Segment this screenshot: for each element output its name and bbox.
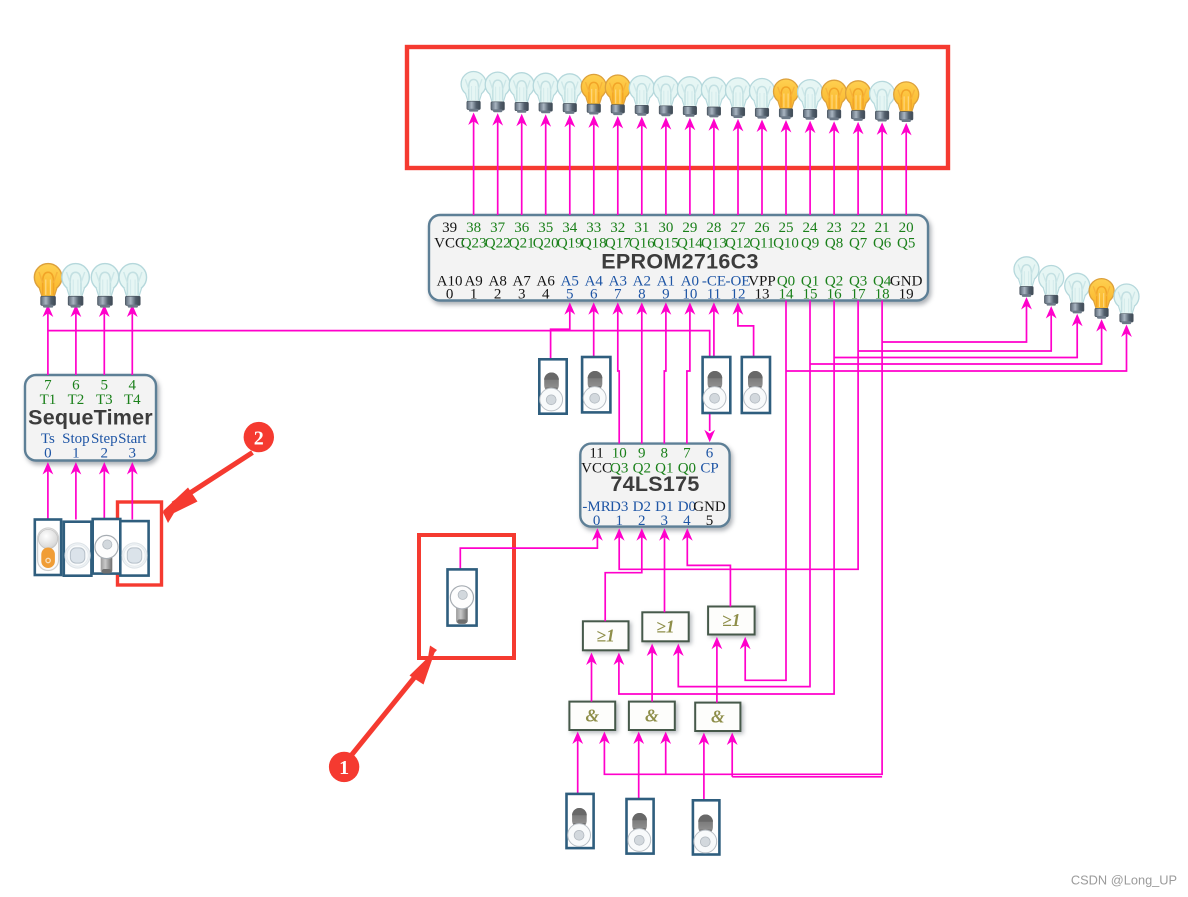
annotation circle 2 xyxy=(244,422,274,452)
wire EPROM pin 30 to lamp L9 xyxy=(661,117,672,215)
wire EPROM -OE pin 12 to button S8 xyxy=(733,302,754,374)
wire clock trunk from T1 node to button S7 xyxy=(48,331,710,382)
lamp LT1 timer T1 on xyxy=(34,264,62,308)
svg-text:10: 10 xyxy=(682,286,697,302)
svg-text:SequeTimer: SequeTimer xyxy=(28,405,153,429)
lamp L8 output Q16 off xyxy=(629,76,654,116)
svg-text:1: 1 xyxy=(339,757,349,779)
lamp LT2 timer T2 off xyxy=(62,264,90,308)
svg-text:22: 22 xyxy=(851,220,866,236)
wire button S9 to 74LS175 -MR pin 0 xyxy=(460,528,603,570)
lamp L7 output Q17 on xyxy=(605,75,630,115)
svg-text:CP: CP xyxy=(700,461,718,477)
svg-text:EPROM2716C3: EPROM2716C3 xyxy=(601,249,758,273)
wire button S6 to EPROM A4 pin 6 xyxy=(588,302,599,380)
lamp L13 output Q11 off xyxy=(750,79,775,119)
or-gate G1 xyxy=(583,621,629,650)
svg-text:19: 19 xyxy=(899,286,914,302)
svg-text:39: 39 xyxy=(442,220,457,236)
svg-text:9: 9 xyxy=(638,445,646,461)
svg-text:13: 13 xyxy=(754,286,769,302)
svg-text:Q9: Q9 xyxy=(801,235,819,251)
svg-text:32: 32 xyxy=(610,220,625,236)
svg-text:16: 16 xyxy=(827,286,843,302)
svg-text:6: 6 xyxy=(706,445,714,461)
and-gate G5 xyxy=(629,702,675,730)
wire button S7 node down to 74LS175 CP pin 6 xyxy=(704,402,715,442)
svg-text:≥1: ≥1 xyxy=(722,610,740,630)
switch S2 button Stop xyxy=(64,522,92,576)
svg-text:CSDN @Long_UP: CSDN @Long_UP xyxy=(1071,873,1177,888)
svg-text:11: 11 xyxy=(707,286,721,302)
lamp L14 output Q10 on xyxy=(774,79,799,119)
wire or-gate G1 output to 74LS175 D2 xyxy=(605,528,647,621)
wire and-gate G4 output to or-gate G1 xyxy=(586,653,597,702)
svg-text:3: 3 xyxy=(661,513,669,529)
lamp L12 output Q12 off xyxy=(726,78,751,118)
svg-text:6: 6 xyxy=(72,377,80,393)
annotation arrow 1 xyxy=(350,646,438,758)
wire EPROM Q1 pin 15 feedback to or-gate G2 and lamp R4 xyxy=(673,301,1107,687)
wire EPROM pin 23 to lamp L16 xyxy=(829,121,840,215)
register U3 74LS175 xyxy=(580,444,729,529)
svg-text:30: 30 xyxy=(658,220,673,236)
lamp LT4 timer T4 off xyxy=(119,264,147,308)
svg-text:Start: Start xyxy=(118,431,147,447)
button S8 output enable xyxy=(742,357,770,413)
svg-text:0: 0 xyxy=(44,446,52,462)
svg-text:Q8: Q8 xyxy=(825,235,843,251)
svg-text:Step: Step xyxy=(91,431,118,447)
button S11 and-gate G5 input xyxy=(627,799,654,854)
wire EPROM pin 37 to lamp L2 xyxy=(492,113,503,215)
lamp L2 output Q22 off xyxy=(485,72,510,112)
svg-text:2: 2 xyxy=(638,513,646,529)
and-gate G4 xyxy=(569,702,615,730)
wire switch S3 to SequeTimer pin 2 xyxy=(99,462,110,520)
wire EPROM pin 26 to lamp L13 xyxy=(757,120,768,216)
svg-text:Q20: Q20 xyxy=(533,235,559,251)
svg-text:11: 11 xyxy=(589,445,603,461)
svg-text:≥1: ≥1 xyxy=(597,625,615,645)
lamp L18 output Q6 off xyxy=(870,81,895,121)
svg-text:2: 2 xyxy=(101,446,109,462)
svg-text:20: 20 xyxy=(899,220,914,236)
wire T4 output to lamp LT4 xyxy=(127,305,138,376)
wire button S11 to and-gate G5 xyxy=(633,732,644,801)
or-gate G2 xyxy=(642,612,688,641)
svg-text:37: 37 xyxy=(490,220,506,236)
lamp L3 output Q21 off xyxy=(509,73,534,113)
wire 74LS175 Q1 to EPROM A1 pin 9 xyxy=(661,302,672,443)
svg-text:31: 31 xyxy=(634,220,649,236)
wire EPROM pin 25 to lamp L14 xyxy=(781,120,792,215)
wire EPROM Q2 pin 16 feedback to or-gate G1 and lamp R3 xyxy=(614,301,1083,695)
wire EPROM pin 33 to lamp L6 xyxy=(588,115,599,215)
svg-text:Q7: Q7 xyxy=(849,235,868,251)
lamp L11 output Q13 off xyxy=(701,77,726,117)
lamp R3 off xyxy=(1065,273,1090,313)
lamp L19 output Q5 on xyxy=(894,82,919,122)
annotation arrow 2 xyxy=(163,453,253,524)
svg-text:&: & xyxy=(585,705,599,725)
wire or-gate G2 output to 74LS175 D1 xyxy=(659,528,670,612)
svg-text:4: 4 xyxy=(129,377,137,393)
svg-text:12: 12 xyxy=(730,286,745,302)
switch S3 key button Step xyxy=(93,519,121,574)
svg-text:17: 17 xyxy=(851,286,867,302)
button S12 and-gate G6 input xyxy=(693,800,720,854)
svg-text:2: 2 xyxy=(254,427,264,449)
svg-text:4: 4 xyxy=(683,513,691,529)
svg-text:5: 5 xyxy=(706,513,714,529)
wire EPROM pin 28 to lamp L11 xyxy=(709,118,720,215)
lamp L17 output Q7 on xyxy=(846,81,871,121)
lamp L15 output Q9 off xyxy=(798,80,823,120)
EPROM U1 EPROM2716C3 xyxy=(429,215,928,302)
wire and-gate G5 output to or-gate G2 xyxy=(647,644,658,702)
lamp L9 output Q15 off xyxy=(653,76,678,116)
svg-text:29: 29 xyxy=(682,220,697,236)
svg-text:Q5: Q5 xyxy=(897,235,915,251)
lamp L5 output Q19 off xyxy=(557,74,582,114)
wire EPROM pin 21 to lamp L18 xyxy=(877,122,888,215)
annotation circle 1 xyxy=(329,752,359,782)
wire EPROM pin 35 to lamp L4 xyxy=(540,114,551,215)
wire EPROM pin 20 to lamp L19 xyxy=(901,123,912,215)
svg-text:2: 2 xyxy=(494,286,502,302)
svg-text:10: 10 xyxy=(612,445,627,461)
svg-text:Q10: Q10 xyxy=(773,235,799,251)
svg-text:74LS175: 74LS175 xyxy=(610,472,699,496)
svg-text:38: 38 xyxy=(466,220,481,236)
svg-text:1: 1 xyxy=(72,446,80,462)
lamp L4 output Q20 off xyxy=(533,73,558,113)
button S5 address A5 xyxy=(539,359,566,413)
svg-text:15: 15 xyxy=(803,286,818,302)
svg-text:Stop: Stop xyxy=(62,431,90,447)
svg-text:Q19: Q19 xyxy=(557,235,583,251)
wire EPROM pin 27 to lamp L12 xyxy=(733,119,744,215)
svg-text:1: 1 xyxy=(615,513,623,529)
annotation box 2 around start switch xyxy=(118,502,162,585)
wire EPROM Q3 pin 17 feedback to 74LS175 D3 and lamp R2 xyxy=(614,301,1057,570)
lamp L10 output Q14 off xyxy=(677,77,702,117)
lamp R1 off xyxy=(1014,257,1039,297)
wire EPROM pin 29 to lamp L10 xyxy=(685,118,696,215)
button S6 address A4 xyxy=(582,357,610,412)
wire button S10 to and-gate G4 xyxy=(572,732,583,796)
svg-text:1: 1 xyxy=(470,286,478,302)
wire button S5 to EPROM A5 pin 5 xyxy=(551,302,576,380)
lamp R2 off xyxy=(1039,266,1064,306)
annotation box 1 around manual reset button xyxy=(419,535,514,658)
wire EPROM Q0 pin 14 feedback to or-gate G3 and lamp R5 xyxy=(740,301,1132,681)
wire T1 output to lamp LT1 and clock trunk node xyxy=(43,305,54,376)
wire 74LS175 Q0 to EPROM A0 pin 10 xyxy=(685,302,696,443)
svg-text:24: 24 xyxy=(803,220,819,236)
svg-text:5: 5 xyxy=(101,377,109,393)
or-gate G3 xyxy=(708,607,755,635)
svg-text:7: 7 xyxy=(614,286,622,302)
wire T2 output to lamp LT2 xyxy=(71,305,82,376)
svg-text:21: 21 xyxy=(875,220,890,236)
svg-text:Q23: Q23 xyxy=(461,235,487,251)
svg-text:5: 5 xyxy=(566,286,574,302)
svg-text:Q22: Q22 xyxy=(485,235,511,251)
svg-text:3: 3 xyxy=(129,446,137,462)
svg-text:6: 6 xyxy=(590,286,598,302)
svg-text:&: & xyxy=(711,706,725,726)
svg-text:Q6: Q6 xyxy=(873,235,892,251)
wire EPROM pin 31 to lamp L8 xyxy=(636,117,647,215)
button S9 register reset xyxy=(448,569,477,625)
svg-text:28: 28 xyxy=(706,220,721,236)
svg-text:9: 9 xyxy=(662,286,670,302)
svg-text:3: 3 xyxy=(518,286,526,302)
watermark xyxy=(1071,873,1177,888)
svg-text:23: 23 xyxy=(827,220,842,236)
svg-text:8: 8 xyxy=(638,286,646,302)
button S7 chip enable xyxy=(703,357,731,413)
wire switch S2 to SequeTimer pin 1 xyxy=(71,462,82,520)
svg-text:&: & xyxy=(645,705,659,725)
switch S1 toggle Ts xyxy=(35,520,61,576)
svg-text:27: 27 xyxy=(730,220,746,236)
lamp LT3 timer T3 off xyxy=(91,264,119,308)
wire EPROM Q4 pin 18 feedback to and-gate bus and lamp R1 xyxy=(599,297,1032,777)
svg-text:Ts: Ts xyxy=(41,431,55,447)
wire or-gate G3 output to 74LS175 D0 xyxy=(682,528,731,606)
svg-text:36: 36 xyxy=(514,220,530,236)
wire EPROM pin 22 to lamp L17 xyxy=(853,122,864,215)
wire EPROM pin 36 to lamp L3 xyxy=(516,114,527,215)
wire EPROM pin 38 to lamp L1 xyxy=(468,113,479,216)
wire 74LS175 Q3 to EPROM A3 pin 7 xyxy=(612,302,623,443)
svg-text:≥1: ≥1 xyxy=(656,616,674,636)
lamp R5 off xyxy=(1114,284,1139,324)
svg-text:25: 25 xyxy=(779,220,794,236)
svg-text:Q21: Q21 xyxy=(509,235,535,251)
wire switch S1 to SequeTimer pin 0 xyxy=(43,462,54,520)
svg-text:34: 34 xyxy=(562,220,578,236)
wire EPROM pin 24 to lamp L15 xyxy=(805,121,816,215)
lamp L6 output Q18 on xyxy=(581,74,606,114)
wire T3 output to lamp LT3 xyxy=(99,305,110,376)
svg-text:35: 35 xyxy=(538,220,553,236)
svg-text:7: 7 xyxy=(683,445,691,461)
svg-text:7: 7 xyxy=(44,377,52,393)
svg-text:0: 0 xyxy=(593,513,601,529)
switch S4 button Start xyxy=(120,521,148,576)
svg-text:8: 8 xyxy=(661,445,669,461)
wire switch S4 to SequeTimer pin 3 xyxy=(127,462,138,520)
lamp L1 output Q23 off xyxy=(461,72,486,112)
wire EPROM pin 34 to lamp L5 xyxy=(564,115,575,215)
wire button S7 to EPROM -CE pin 11 xyxy=(709,302,720,384)
and-gate G6 xyxy=(695,703,740,731)
annotation box around output lamp row xyxy=(407,47,948,168)
svg-text:26: 26 xyxy=(754,220,770,236)
wire and-gate G6 output to or-gate G3 xyxy=(712,637,723,703)
svg-text:4: 4 xyxy=(542,286,550,302)
wire EPROM pin 32 to lamp L7 xyxy=(612,116,623,215)
wire 74LS175 Q2 to EPROM A2 pin 8 xyxy=(636,302,647,443)
lamp L16 output Q8 on xyxy=(822,80,847,120)
svg-text:33: 33 xyxy=(586,220,601,236)
svg-text:VCC: VCC xyxy=(581,461,612,477)
button S10 and-gate G4 input xyxy=(567,794,594,848)
svg-text:0: 0 xyxy=(446,286,454,302)
svg-text:14: 14 xyxy=(779,286,795,302)
lamp R4 on xyxy=(1089,279,1114,319)
svg-text:18: 18 xyxy=(875,286,890,302)
wire button S12 to and-gate G6 xyxy=(699,733,710,802)
sequence timer U2 SequeTimer xyxy=(25,375,156,462)
